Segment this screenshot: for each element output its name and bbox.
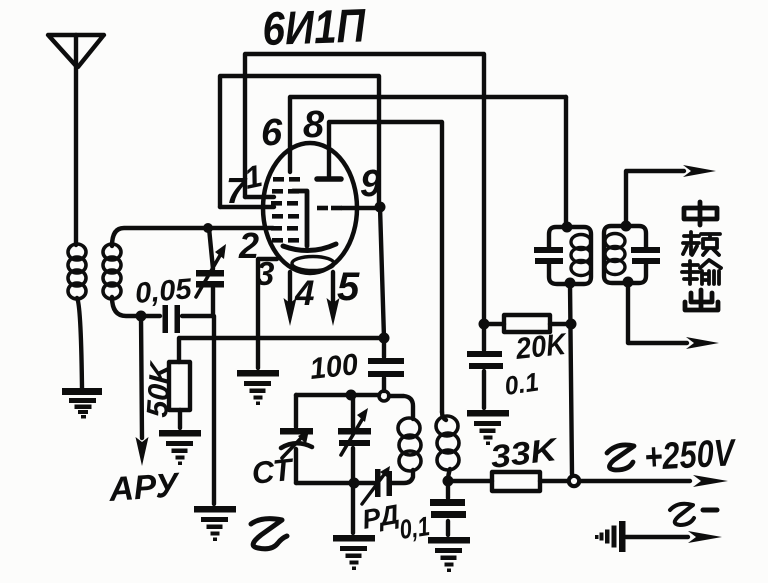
label 乙 bottom-left	[251, 519, 287, 549]
node oscillator top ring junction	[379, 391, 389, 401]
ground under tuning branch	[194, 506, 236, 541]
node IF secondary top	[621, 221, 632, 232]
heater dimple	[292, 257, 334, 271]
node bus / pin9 branch junction	[379, 333, 390, 344]
variable capacitor C1 tuning	[209, 228, 213, 316]
label 乙−	[670, 504, 694, 525]
capacitor C4 0.1 screen bypass	[482, 324, 486, 408]
ground under C5	[428, 537, 470, 572]
wire top bus 1 (pin1 to screen line)	[245, 54, 484, 324]
IF transformer secondary tank loop	[604, 226, 646, 283]
inductor L1 antenna coil	[68, 244, 86, 299]
wire L4 junction to 33K	[448, 479, 492, 483]
wire oscillator tank top	[296, 395, 413, 419]
svg-text:9: 9	[360, 163, 381, 205]
node screen line / 20K junction	[479, 319, 490, 330]
tube pin 2 signal grid entry	[260, 227, 273, 229]
arrow АРУ AGC output	[141, 316, 142, 438]
antenna	[48, 35, 104, 67]
resistor R3 33K	[492, 472, 540, 491]
svg-text:РД: РД	[360, 499, 402, 535]
heater pin 4 arrow	[288, 272, 292, 302]
wire IF primary top lead	[564, 97, 568, 227]
wire B minus arrow	[626, 535, 688, 539]
pin 7 lead into tube	[220, 205, 274, 209]
trimmer capacitor СТ	[294, 395, 298, 483]
heptode anode L-line	[293, 191, 307, 246]
svg-text:4: 4	[294, 274, 314, 313]
triode anode bar (pin 8)	[317, 176, 341, 182]
variable capacitor osc tuning	[351, 395, 355, 483]
wire IF primary bottom to B+ node	[570, 284, 572, 474]
wire cathode bus	[179, 338, 384, 362]
svg-text:0,05: 0,05	[134, 273, 194, 310]
wire antenna feed	[74, 35, 78, 245]
chassis ground rotated (B minus)	[595, 521, 626, 552]
node IF secondary bottom	[623, 277, 634, 288]
node L4 bottom junction	[443, 476, 454, 487]
tube U1 6И1П envelope	[263, 143, 357, 273]
wire pin9 down to 100pF node	[380, 207, 384, 338]
heater pin 5 arrow	[331, 272, 335, 302]
svg-text:3: 3	[256, 255, 274, 292]
wire top bus 2 (pin7 to pin9)	[220, 76, 379, 207]
svg-text:СТ: СТ	[250, 452, 297, 491]
wire oscillator tank bottom	[296, 470, 413, 483]
heptode grids dashed columns	[271, 177, 300, 243]
svg-text:0.1: 0.1	[503, 367, 541, 401]
svg-text:20K: 20K	[513, 328, 569, 366]
wire top bus 4 (pin8 to oscillator coil)	[329, 122, 442, 412]
wire L2 bottom to AGC node	[112, 297, 141, 316]
capacitor C3 100	[382, 338, 386, 391]
ground under pin 3	[237, 370, 279, 405]
label 出	[685, 290, 718, 310]
wire top bus 3 (pin6 to IF transformer)	[290, 97, 566, 172]
ground under oscillator mid	[333, 535, 375, 570]
capacitor C5 0,1 bottom	[446, 481, 450, 535]
capacitor IF secondary	[631, 247, 660, 264]
node osc bottom mid junction	[349, 478, 360, 489]
cathode arc	[283, 244, 336, 251]
node 20K right junction	[566, 319, 577, 330]
svg-text:6И1П: 6И1П	[261, 0, 367, 55]
wire mid branch to ground	[351, 483, 355, 533]
wire R1 to ground	[178, 410, 182, 428]
label 乙+250V	[607, 445, 634, 470]
wire pin 3 cathode to ground	[258, 259, 277, 368]
inductor L4 oscillator feedback coil	[442, 412, 446, 420]
svg-text:АРУ: АРУ	[107, 466, 182, 509]
wire IF output top arrow	[626, 171, 684, 226]
svg-text:5: 5	[337, 265, 360, 309]
trimmer capacitor ПД (series padder)	[375, 469, 392, 497]
wire L2 top to grid line	[112, 228, 273, 246]
node junction grid/tuning cap	[203, 223, 213, 233]
wire tuning branch down to ground	[212, 316, 216, 504]
label 频	[683, 232, 720, 255]
ground under C4	[467, 410, 509, 445]
capacitor IF primary	[534, 247, 563, 264]
node AGC junction	[136, 311, 147, 322]
resistor R1 30K	[169, 362, 190, 410]
svg-text:8: 8	[303, 104, 325, 146]
node osc top mid junction	[346, 390, 357, 401]
wire B+ arrow	[580, 479, 690, 483]
node pin 9 junction	[375, 202, 386, 213]
svg-text:50K: 50K	[141, 359, 178, 419]
resistor R2 20K	[484, 322, 571, 326]
node B+ ring junction	[569, 476, 579, 486]
inductor L2 secondary coil	[103, 244, 121, 299]
wire IF output bottom arrow	[628, 283, 687, 343]
ground under L1	[62, 388, 102, 419]
pin 1 lead into tube	[245, 195, 274, 199]
svg-text:+250V: +250V	[643, 432, 737, 479]
wire 33K to B+ node	[540, 479, 567, 483]
inductor L3 oscillator coil	[398, 418, 421, 471]
node IF primary top	[562, 222, 573, 233]
triode grid dashes and pin 9 lead	[317, 206, 342, 211]
svg-text:100: 100	[308, 348, 359, 386]
capacitor C2 0,05	[141, 314, 213, 318]
label 中	[684, 202, 717, 225]
IF transformer primary tank loop	[549, 227, 591, 284]
wire L1 to ground	[77, 298, 82, 388]
svg-text:6: 6	[261, 112, 283, 154]
label 输	[682, 260, 721, 284]
svg-text:0,1: 0,1	[398, 511, 432, 545]
node IF primary bottom	[565, 278, 576, 289]
inductor IF primary coil	[571, 235, 591, 276]
ground under R1	[159, 430, 201, 465]
inductor IF secondary coil	[605, 234, 625, 275]
